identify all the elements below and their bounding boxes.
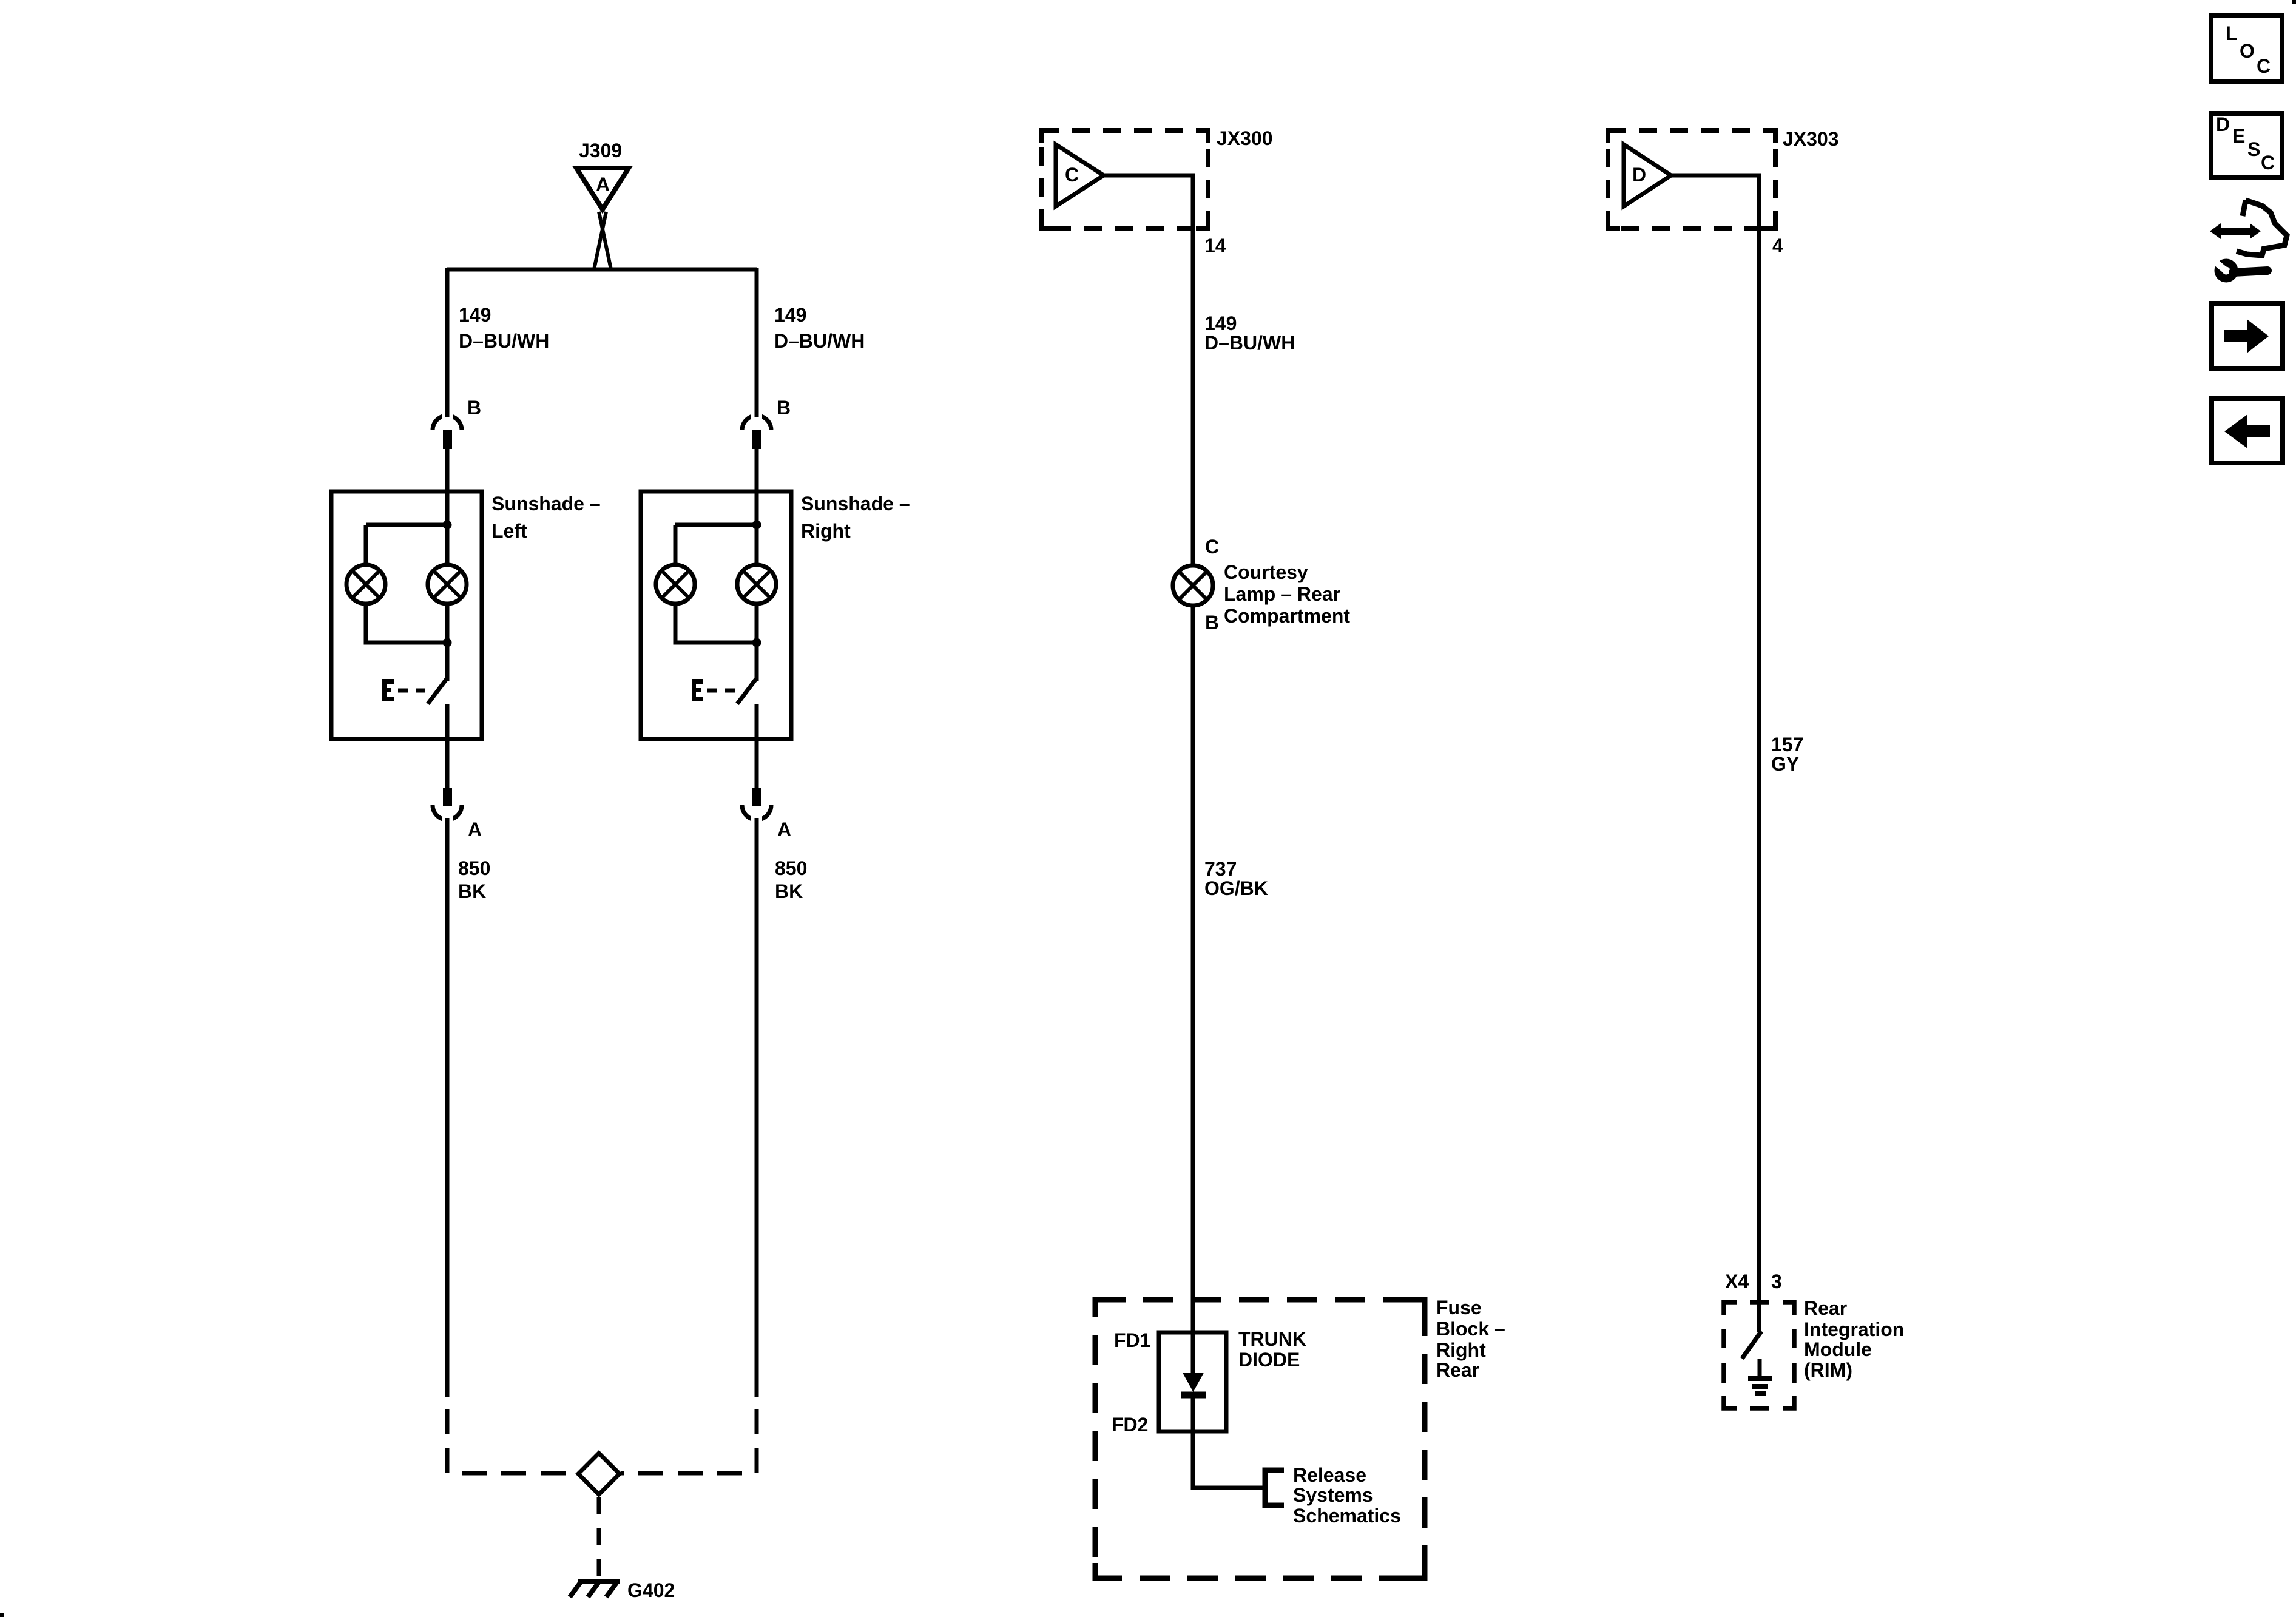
wire from D to RIM [1669,175,1759,1332]
svg-text:BK: BK [458,880,486,902]
svg-text:X4: X4 [1725,1271,1749,1292]
junction left box top [443,521,452,530]
label 149 D-BU/WH right [774,304,865,352]
svg-text:L: L [2226,22,2238,44]
svg-text:Schematics: Schematics [1293,1505,1401,1527]
svg-text:TRUNK: TRUNK [1238,1328,1306,1350]
label 850 BK left [458,857,490,902]
svg-text:Rear: Rear [1436,1359,1479,1381]
svg-text:J309: J309 [579,140,622,161]
svg-text:850: 850 [458,857,490,879]
svg-text:D: D [2216,113,2230,135]
sunshade left box [331,491,601,739]
junction left box bottom [443,638,452,647]
pin 14 label [1204,235,1226,257]
svg-text:A: A [596,174,610,195]
svg-text:Lamp – Rear: Lamp – Rear [1224,583,1340,605]
svg-text:14: 14 [1204,235,1226,257]
DESC icon box [2211,113,2282,177]
connector pin B left [433,269,481,449]
svg-text:C: C [2261,152,2275,174]
wire diode to release systems [1193,1393,1265,1488]
svg-text:E: E [2232,125,2245,147]
svg-text:Release: Release [1293,1464,1366,1486]
repair icon wrench [2211,257,2267,279]
RIM dashed box [1724,1302,1794,1408]
svg-text:149: 149 [774,304,806,326]
page corner mark top right [2292,0,2296,4]
pin FD1 label [1114,1329,1150,1351]
svg-text:OG/BK: OG/BK [1204,877,1268,899]
connector pin B right [742,269,791,449]
svg-text:Integration: Integration [1804,1318,1904,1340]
svg-text:JX300: JX300 [1217,127,1273,149]
connector D triangle [1624,144,1671,206]
svg-text:C: C [1205,536,1219,558]
repair icon double arrow [2210,223,2261,239]
page corner mark bottom left [0,1613,4,1617]
svg-text:S: S [2247,138,2260,160]
wire below right sunshade [755,739,759,788]
svg-text:737: 737 [1204,858,1237,880]
svg-text:Sunshade –: Sunshade – [491,493,601,515]
label 149 D-BU/WH middle [1204,312,1295,354]
svg-text:JX303: JX303 [1783,128,1839,150]
svg-text:Right: Right [801,520,851,542]
svg-text:Sunshade –: Sunshade – [801,493,910,515]
connector JX300 dashed box [1041,127,1273,229]
splice J309 triangle symbol [576,168,629,209]
svg-text:B: B [777,397,791,419]
release systems bracket [1265,1464,1401,1527]
svg-text:BK: BK [775,880,803,902]
sunshade right box [641,491,910,739]
svg-text:D: D [1632,164,1646,186]
lamp left-box 1 [346,565,385,604]
lamp right-box 2 [737,565,776,604]
svg-text:C: C [1065,164,1079,186]
courtesy lamp symbol [1173,561,1350,627]
connector pin A left [433,788,482,1397]
pin 3 label [1771,1271,1782,1292]
RIM internal switch [1742,1331,1761,1359]
svg-text:850: 850 [775,857,807,879]
wire left branch down [445,268,450,416]
pin C label [1205,536,1219,558]
svg-text:Rear: Rear [1804,1297,1847,1319]
pin X4 label [1725,1271,1749,1292]
dashed ground lead left [447,1409,577,1473]
svg-text:FD2: FD2 [1112,1414,1148,1436]
svg-text:Fuse: Fuse [1436,1297,1482,1318]
svg-text:A: A [777,819,791,840]
ground G402 [570,1579,675,1601]
lamp left-box 2 [428,565,467,604]
svg-text:3: 3 [1771,1271,1782,1292]
pin B label [1205,612,1219,633]
label 157 GY [1771,734,1803,775]
lamp right-box 1 [656,565,695,604]
svg-text:DIODE: DIODE [1238,1349,1300,1371]
svg-text:4: 4 [1772,235,1783,257]
svg-text:A: A [468,819,482,840]
pin 4 label [1772,235,1783,257]
svg-text:O: O [2240,40,2255,62]
svg-text:GY: GY [1771,753,1799,775]
label 149 D-BU/WH left [459,304,549,352]
svg-text:(RIM): (RIM) [1804,1359,1852,1381]
junction right box top [752,521,761,530]
wire lamp to fuse block [1191,605,1195,1374]
wire below left sunshade [445,739,450,788]
svg-text:D–BU/WH: D–BU/WH [1204,332,1295,354]
connector C triangle [1056,144,1104,206]
svg-text:149: 149 [1204,312,1237,334]
svg-text:B: B [467,397,481,419]
wire horizontal bus from J309 [447,268,757,272]
svg-text:Left: Left [491,520,527,542]
svg-text:157: 157 [1771,734,1803,755]
svg-text:FD1: FD1 [1114,1329,1150,1351]
dashed lead diamond to ground [597,1497,601,1580]
connector JX303 dashed box [1608,128,1839,229]
previous page arrow icon [2212,399,2283,463]
wire right box internal branches [675,525,757,681]
svg-text:Right: Right [1436,1339,1486,1361]
svg-text:G402: G402 [627,1579,675,1601]
trunk diode box [1159,1328,1306,1431]
repair icon part outline [2237,200,2287,255]
svg-text:D–BU/WH: D–BU/WH [774,330,865,352]
wire from C to courtesy lamp [1102,175,1193,566]
splice diamond [578,1453,620,1494]
svg-text:B: B [1205,612,1219,633]
label 850 BK right [775,857,807,902]
svg-text:C: C [2257,55,2271,77]
junction right box bottom [752,638,761,647]
LOC icon box [2211,16,2282,82]
switch right box [692,679,757,739]
RIM internal ground [1748,1359,1772,1394]
label 737 OG/BK [1204,858,1268,899]
wire left box internal branches [366,525,447,681]
svg-text:Block –: Block – [1436,1318,1505,1340]
wire right branch down [755,268,759,416]
fuse block dashed box [1095,1297,1505,1578]
svg-text:Courtesy: Courtesy [1224,561,1308,583]
RIM label [1804,1297,1904,1381]
svg-text:Compartment: Compartment [1224,605,1350,627]
wire into right sunshade [755,449,759,525]
svg-text:149: 149 [459,304,491,326]
next page arrow icon [2212,303,2283,369]
svg-text:Systems: Systems [1293,1484,1373,1506]
pin FD2 label [1112,1414,1148,1436]
dashed ground lead right [621,1409,757,1473]
diode symbol [1181,1374,1206,1395]
wire crossover below J309 [594,212,611,269]
svg-text:Module: Module [1804,1338,1872,1360]
connector pin A right [742,788,791,1397]
switch left box [382,679,447,739]
wire into left sunshade [445,449,450,525]
splice J309 label [579,140,622,161]
svg-text:D–BU/WH: D–BU/WH [459,330,549,352]
